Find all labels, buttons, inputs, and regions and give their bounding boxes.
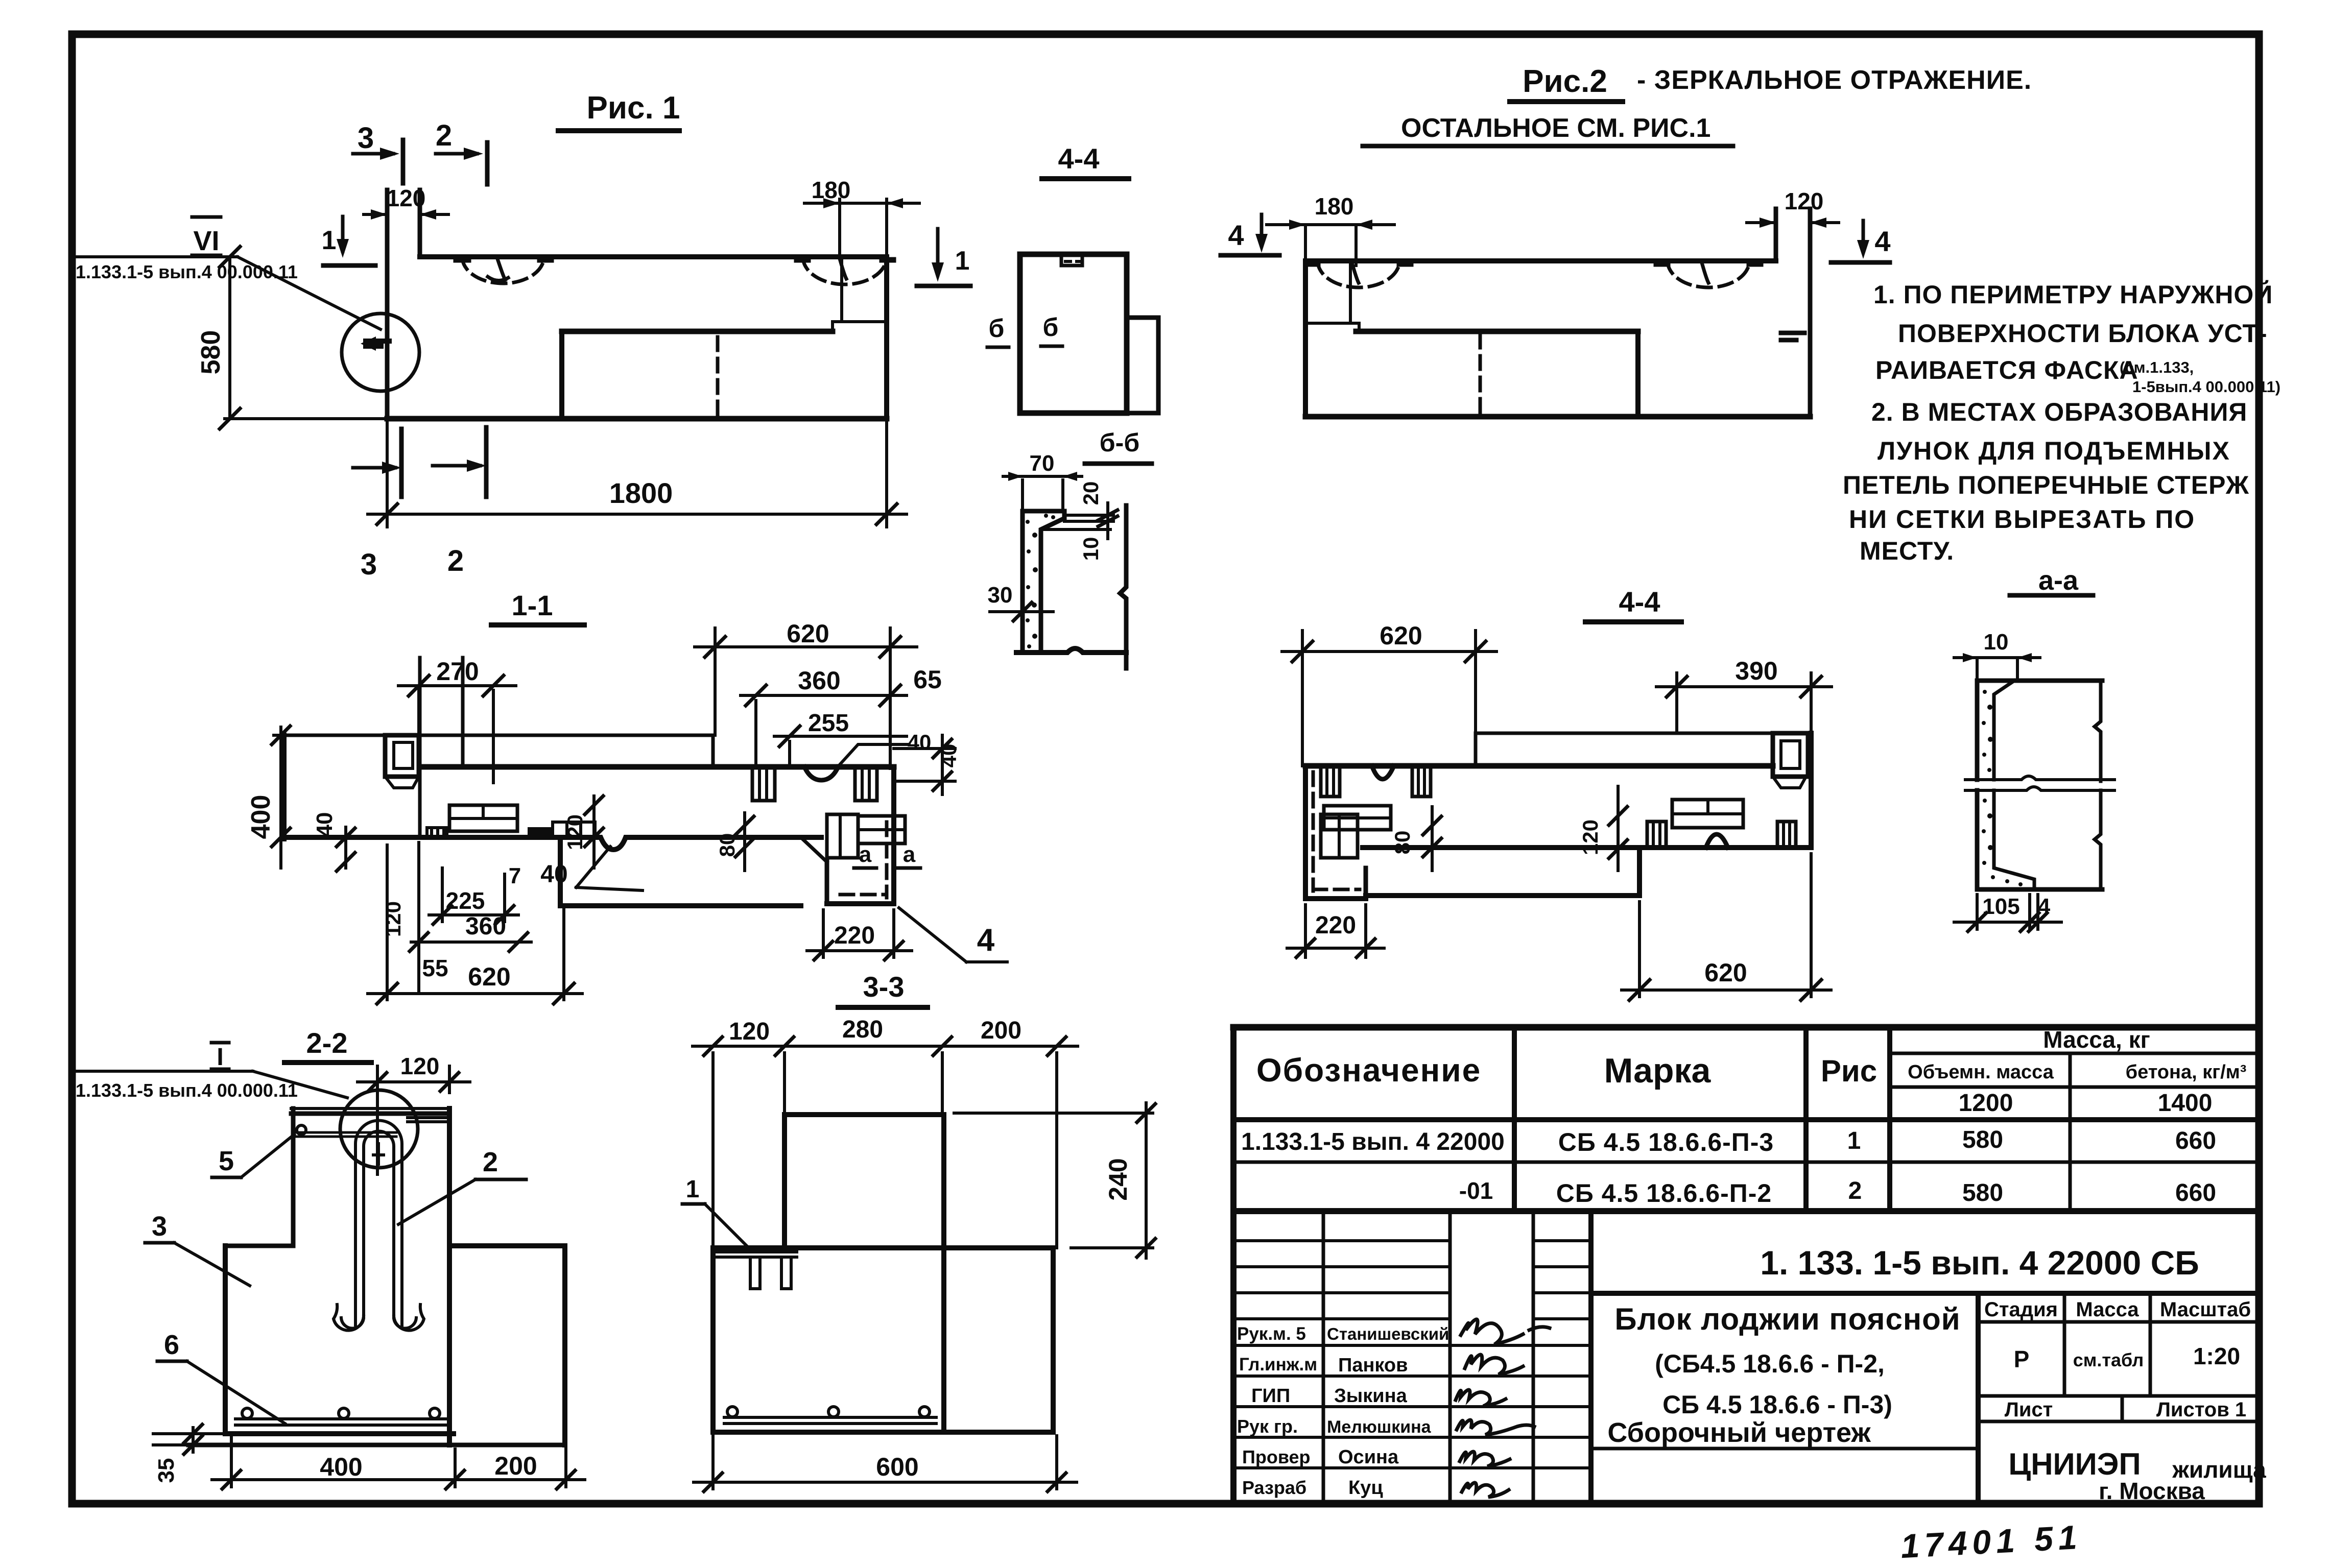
svg-text:10: 10	[1079, 537, 1103, 561]
svg-text:270: 270	[436, 657, 479, 686]
svg-text:600: 600	[876, 1453, 918, 1481]
svg-text:2: 2	[447, 544, 464, 577]
svg-text:35: 35	[154, 1458, 179, 1483]
svg-text:1.133.1-5 вып.4 00.000.11: 1.133.1-5 вып.4 00.000.11	[76, 261, 298, 282]
svg-text:120: 120	[563, 814, 587, 850]
svg-text:I: I	[217, 1044, 223, 1071]
svg-text:Рук.м. 5: Рук.м. 5	[1237, 1324, 1306, 1344]
svg-text:1800: 1800	[609, 477, 673, 509]
svg-text:2: 2	[1848, 1177, 1862, 1204]
svg-text:4: 4	[1874, 225, 1890, 257]
svg-text:бетона, кг/м³: бетона, кг/м³	[2126, 1062, 2247, 1083]
svg-text:3-3: 3-3	[863, 971, 905, 1003]
svg-text:55: 55	[422, 955, 448, 981]
svg-text:1: 1	[686, 1176, 700, 1203]
svg-text:б-б: б-б	[1100, 428, 1139, 457]
svg-text:СБ 4.5 18.6.6-П-2: СБ 4.5 18.6.6-П-2	[1556, 1179, 1772, 1208]
svg-text:ЦНИИЭП: ЦНИИЭП	[2008, 1447, 2141, 1481]
svg-text:Станишевский: Станишевский	[1327, 1324, 1449, 1343]
svg-text:1: 1	[1847, 1127, 1861, 1154]
svg-text:200: 200	[981, 1017, 1021, 1044]
svg-text:1200: 1200	[1959, 1090, 2013, 1117]
svg-text:70: 70	[1030, 451, 1055, 476]
svg-text:660: 660	[2175, 1179, 2216, 1207]
svg-text:- ЗЕРКАЛЬНОЕ ОТРАЖЕНИЕ.: - ЗЕРКАЛЬНОЕ ОТРАЖЕНИЕ.	[1637, 65, 2032, 95]
svg-text:а-а: а-а	[2038, 565, 2079, 596]
svg-text:СБ 4.5 18.6.6 - П-3): СБ 4.5 18.6.6 - П-3)	[1662, 1390, 1892, 1419]
svg-text:(см.1.133,: (см.1.133,	[2120, 358, 2194, 376]
svg-text:180: 180	[812, 177, 851, 203]
svg-text:4-4: 4-4	[1619, 586, 1660, 618]
svg-text:400: 400	[320, 1453, 362, 1481]
svg-text:Р: Р	[2014, 1346, 2030, 1372]
svg-text:660: 660	[2175, 1127, 2216, 1154]
svg-text:5: 5	[219, 1146, 234, 1176]
svg-text:620: 620	[1704, 958, 1747, 987]
svg-text:Рис. 1: Рис. 1	[587, 90, 680, 126]
svg-text:Разраб: Разраб	[1242, 1477, 1306, 1498]
svg-text:620: 620	[787, 619, 829, 648]
svg-text:1. ПО ПЕРИМЕТРУ НАРУЖНОЙ: 1. ПО ПЕРИМЕТРУ НАРУЖНОЙ	[1873, 280, 2273, 309]
svg-text:2: 2	[483, 1147, 498, 1177]
svg-text:580: 580	[196, 330, 226, 375]
svg-text:220: 220	[834, 922, 875, 949]
svg-text:1-1: 1-1	[512, 589, 553, 621]
svg-text:Масса: Масса	[2076, 1298, 2139, 1321]
svg-text:НИ СЕТКИ ВЫРЕЗАТЬ ПО: НИ СЕТКИ ВЫРЕЗАТЬ ПО	[1849, 505, 2195, 534]
svg-text:30: 30	[988, 583, 1013, 608]
svg-text:400: 400	[246, 795, 276, 839]
svg-text:255: 255	[808, 710, 849, 737]
svg-text:Обозначение: Обозначение	[1256, 1052, 1481, 1089]
svg-text:40: 40	[908, 730, 932, 754]
svg-text:40: 40	[540, 861, 567, 888]
svg-text:ПЕТЕЛЬ ПОПЕРЕЧНЫЕ СТЕРЖ: ПЕТЕЛЬ ПОПЕРЕЧНЫЕ СТЕРЖ	[1843, 471, 2249, 499]
svg-text:1.133.1-5 вып. 4 22000: 1.133.1-5 вып. 4 22000	[1241, 1128, 1505, 1155]
svg-text:65: 65	[913, 665, 942, 694]
svg-text:4: 4	[977, 923, 995, 958]
svg-text:ЛУНОК ДЛЯ ПОДЪЕМНЫХ: ЛУНОК ДЛЯ ПОДЪЕМНЫХ	[1878, 437, 2230, 465]
svg-text:7: 7	[509, 863, 521, 888]
svg-text:Сборочный чертеж: Сборочный чертеж	[1607, 1417, 1871, 1448]
svg-text:120: 120	[1578, 819, 1602, 855]
svg-text:1. 133. 1-5 вып. 4 22000: 1. 133. 1-5 вып. 4 22000 СБ	[1760, 1244, 2199, 1282]
svg-text:Осина: Осина	[1338, 1446, 1399, 1468]
svg-text:СБ 4.5 18.6.6-П-3: СБ 4.5 18.6.6-П-3	[1558, 1128, 1774, 1156]
svg-text:580: 580	[1962, 1179, 2003, 1207]
svg-text:1:20: 1:20	[2193, 1343, 2240, 1369]
svg-text:ОСТАЛЬНОЕ СМ. РИС.1: ОСТАЛЬНОЕ СМ. РИС.1	[1401, 113, 1710, 143]
svg-text:Мелюшкина: Мелюшкина	[1327, 1417, 1432, 1437]
svg-text:Гл.инж.м: Гл.инж.м	[1239, 1355, 1317, 1374]
svg-text:Провер: Провер	[1242, 1446, 1311, 1467]
svg-text:200: 200	[494, 1452, 537, 1480]
svg-text:220: 220	[1315, 912, 1356, 939]
svg-text:80: 80	[1390, 831, 1414, 855]
svg-text:г. Москва: г. Москва	[2099, 1478, 2205, 1504]
svg-text:3: 3	[361, 548, 377, 581]
svg-text:ПОВЕРХНОСТИ БЛОКА УСТ-: ПОВЕРХНОСТИ БЛОКА УСТ-	[1898, 319, 2268, 348]
svg-text:580: 580	[1962, 1126, 2003, 1153]
svg-text:6: 6	[164, 1330, 179, 1360]
svg-text:Куц: Куц	[1348, 1477, 1383, 1499]
svg-text:Листов 1: Листов 1	[2156, 1398, 2246, 1421]
svg-text:(СБ4.5 18.6.6 - П-2,: (СБ4.5 18.6.6 - П-2,	[1655, 1349, 1885, 1378]
svg-text:Панков: Панков	[1338, 1355, 1408, 1376]
svg-text:Марка: Марка	[1604, 1051, 1712, 1090]
svg-text:120: 120	[400, 1053, 440, 1079]
svg-text:2. В МЕСТАХ ОБРАЗОВАНИЯ: 2. В МЕСТАХ ОБРАЗОВАНИЯ	[1871, 398, 2247, 426]
svg-text:a: a	[859, 842, 872, 867]
svg-text:120: 120	[1785, 188, 1824, 214]
svg-text:Рис.2: Рис.2	[1523, 64, 1607, 99]
svg-text:620: 620	[468, 962, 510, 991]
svg-text:VI: VI	[193, 226, 219, 256]
svg-text:360: 360	[798, 666, 840, 695]
svg-text:1400: 1400	[2158, 1090, 2213, 1117]
svg-text:120: 120	[381, 901, 405, 937]
svg-text:180: 180	[1315, 193, 1354, 220]
svg-text:-01: -01	[1459, 1177, 1493, 1204]
svg-text:390: 390	[1735, 657, 1777, 685]
svg-text:б: б	[989, 314, 1005, 343]
svg-text:20: 20	[1079, 481, 1103, 505]
svg-text:3: 3	[152, 1211, 167, 1242]
svg-text:см.табл: см.табл	[2073, 1349, 2144, 1370]
svg-text:2: 2	[436, 119, 452, 152]
svg-text:Лист: Лист	[2005, 1398, 2053, 1421]
svg-text:ГИП: ГИП	[1251, 1385, 1290, 1407]
svg-text:105: 105	[1982, 894, 2019, 919]
svg-text:МЕСТУ.: МЕСТУ.	[1860, 537, 1954, 565]
svg-text:2-2: 2-2	[306, 1027, 348, 1059]
svg-text:1: 1	[955, 246, 970, 276]
svg-text:Масса, кг: Масса, кг	[2043, 1026, 2150, 1053]
svg-text:РАИВАЕТСЯ ФАСКА: РАИВАЕТСЯ ФАСКА	[1875, 356, 2138, 384]
svg-text:120: 120	[729, 1018, 770, 1045]
svg-text:a: a	[903, 842, 916, 867]
svg-text:Рук гр.: Рук гр.	[1237, 1416, 1298, 1437]
svg-text:10: 10	[1984, 630, 2009, 655]
svg-text:120: 120	[387, 185, 426, 211]
svg-text:240: 240	[1104, 1158, 1132, 1200]
svg-text:Рис: Рис	[1821, 1054, 1877, 1088]
svg-text:360: 360	[465, 913, 506, 940]
svg-text:1.133.1-5 вып.4 00.000.11: 1.133.1-5 вып.4 00.000.11	[76, 1080, 298, 1101]
svg-text:Зыкина: Зыкина	[1334, 1385, 1408, 1407]
svg-text:Блок лоджии поясной: Блок лоджии поясной	[1614, 1302, 1960, 1336]
svg-text:620: 620	[1380, 621, 1422, 650]
svg-text:40: 40	[312, 812, 337, 837]
svg-text:Объемн. масса: Объемн. масса	[1908, 1062, 2054, 1083]
svg-text:280: 280	[842, 1016, 883, 1043]
svg-text:3: 3	[358, 122, 374, 155]
svg-text:б: б	[1043, 313, 1059, 342]
svg-text:1: 1	[322, 226, 337, 255]
svg-text:1-5вып.4 00.000.11): 1-5вып.4 00.000.11)	[2132, 378, 2280, 396]
svg-text:Стадия: Стадия	[1984, 1298, 2058, 1321]
svg-text:Масштаб: Масштаб	[2160, 1298, 2251, 1321]
svg-text:225: 225	[446, 887, 485, 914]
svg-text:4-4: 4-4	[1058, 142, 1100, 175]
svg-text:4: 4	[1228, 219, 1244, 251]
